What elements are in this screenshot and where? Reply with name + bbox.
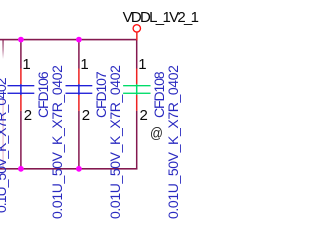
capacitor C1 = CFD106 [8,40,35,169]
value label of CFD107 [108,65,122,219]
top plate CFD108 [123,85,150,86]
net label VDDL_1V2_1 [123,10,198,25]
bottom plate CFD106 [8,93,35,94]
wire lower lead CFD108 [136,111,138,169]
property marker @ of CFD108 [150,126,163,141]
junction top-mid [76,37,82,43]
wire lower lead CFD107 [78,111,80,169]
junction bottom-left [18,166,24,172]
wire upper lead CFD107 [78,40,80,69]
pin number 1 of CFD107 [80,57,88,72]
wire bottom bus [0,168,138,170]
top plate CFD106 [8,85,35,86]
pin 2 stub CFD107 [78,95,80,111]
pin number 2 of CFD107 [82,108,90,123]
power connector circle VDDL_1V2_1 [133,25,140,32]
top plate CFD107 [66,85,93,86]
bottom plate CFD107 [66,93,93,94]
bottom plate CFD108 [123,93,150,94]
pin number 2 of CFD108 [140,108,148,123]
power connector stub [136,32,138,40]
value label of left clipped capacitor [0,78,8,213]
pin 1 stub CFD108 [136,69,138,85]
pin 1 stub CFD107 [78,69,80,85]
value label of CFD108 [166,65,180,219]
pin 2 stub CFD108 [136,95,138,111]
wire left clipped branch (upper stub) [2,40,3,59]
symbol body line CFD107 [78,84,80,95]
wire upper lead CFD106 [20,40,22,69]
wire upper lead CFD108 [136,40,138,69]
symbol body line CFD106 [20,84,22,95]
wire left clipped branch (lower faint segment) [3,97,4,169]
pin 2 stub CFD106 [20,95,22,111]
pin number 1 of CFD106 [22,57,30,72]
pin number 1 of CFD108 [138,57,146,72]
junction top-left [18,37,24,43]
capacitor C3 = CFD108 (selected, drawn green) [123,40,150,169]
pin number 2 of CFD106 [24,108,32,123]
reference designator CFD106 [36,72,50,118]
reference designator CFD107 [94,72,108,118]
pin 1 stub CFD106 [20,69,22,85]
junction bottom-mid [76,166,82,172]
wire lower lead CFD106 [20,111,22,169]
symbol body line CFD108 [136,84,138,95]
capacitor C2 = CFD107 [66,40,93,169]
wire top bus (net VDDL_1V2_1) [0,39,138,41]
reference designator CFD108 [152,72,166,118]
value label of CFD106 [50,65,64,219]
